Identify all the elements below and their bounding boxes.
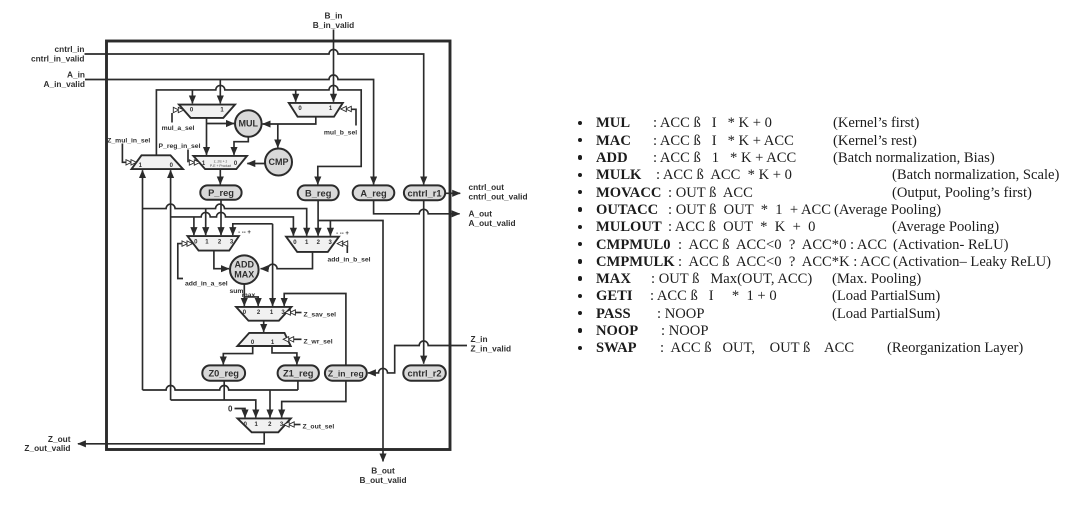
svg-text:A_in: A_in	[67, 70, 85, 80]
svg-text:B_in: B_in	[325, 11, 343, 21]
svg-text:Z_out_valid: Z_out_valid	[24, 443, 70, 453]
svg-text:Z0_reg: Z0_reg	[208, 369, 239, 379]
svg-text:B_in_valid: B_in_valid	[313, 20, 355, 30]
svg-text:Z1_reg: Z1_reg	[283, 369, 314, 379]
svg-text:B_out: B_out	[371, 466, 395, 476]
svg-text:cntrl_in_valid: cntrl_in_valid	[31, 54, 85, 64]
svg-text:cntrl_r2: cntrl_r2	[407, 369, 441, 379]
svg-text:Z_out_sel: Z_out_sel	[303, 424, 335, 431]
svg-text:A_in_valid: A_in_valid	[43, 79, 85, 89]
svg-text:B_out_valid: B_out_valid	[359, 475, 406, 485]
svg-text:0: 0	[228, 405, 233, 414]
svg-text:Z_in_reg: Z_in_reg	[328, 369, 364, 379]
svg-text:cntrl_in: cntrl_in	[55, 44, 85, 54]
